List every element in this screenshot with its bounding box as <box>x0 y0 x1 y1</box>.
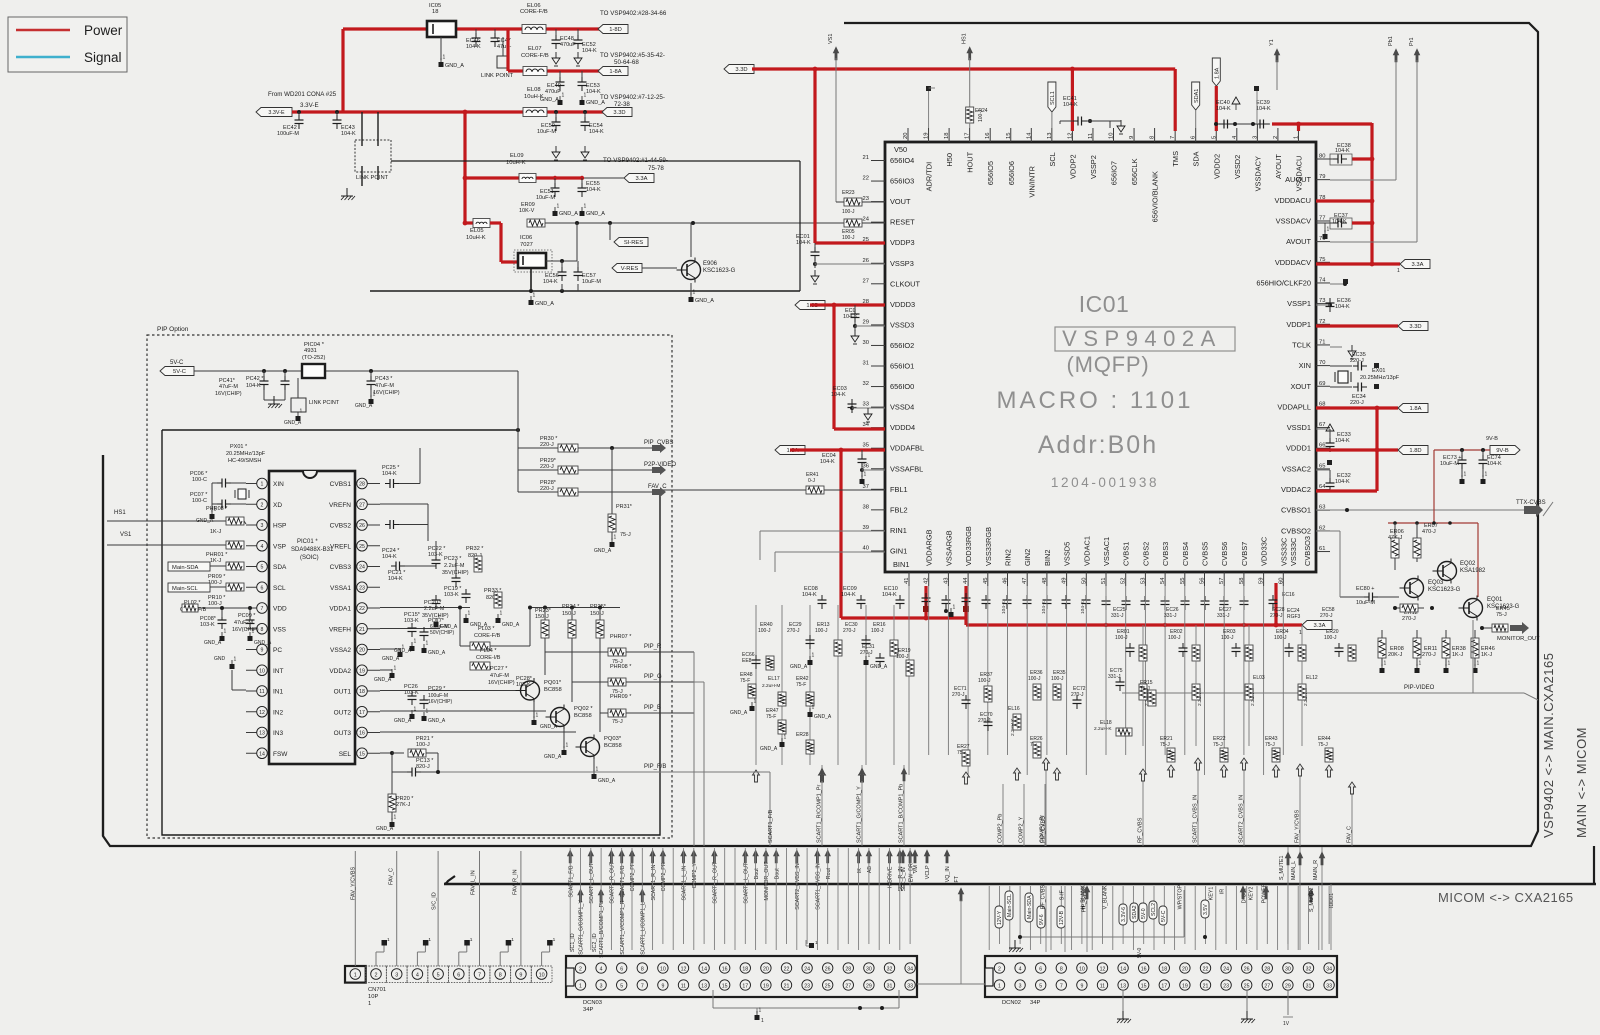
svg-text:100-J: 100-J <box>1221 635 1234 641</box>
svg-text:Bout: Bout <box>774 868 780 879</box>
power trace right trunk x1372 <box>1370 123 1373 264</box>
IC01 pin 24 RESET <box>871 221 885 223</box>
svg-text:1: 1 <box>368 1001 371 1007</box>
svg-text:1: 1 <box>557 204 560 210</box>
svg-text:PL03 *: PL03 * <box>478 626 495 632</box>
wire IFT to DCN02 <box>960 900 962 984</box>
svg-text:SDA1: SDA1 <box>1194 89 1200 103</box>
svg-text:104-K: 104-K <box>246 383 261 389</box>
svg-text:Power: Power <box>84 23 123 38</box>
svg-text:IR: IR <box>1220 889 1226 894</box>
svg-text:VSSP3: VSSP3 <box>890 259 914 268</box>
wire CVBSO1 <box>1316 509 1524 511</box>
svg-text:104-K: 104-K <box>589 129 604 135</box>
svg-text:PC29 *: PC29 * <box>428 686 446 692</box>
DCN03 pin 5 <box>617 980 627 990</box>
svg-text:5: 5 <box>1039 984 1042 990</box>
svg-text:20.25MHz/13pF: 20.25MHz/13pF <box>226 451 266 457</box>
power trace pin59 riser <box>1274 583 1277 625</box>
svg-text:PR25*: PR25* <box>590 604 607 610</box>
power trace left bottom trunk x841 <box>839 450 842 618</box>
svg-text:270-J: 270-J <box>1402 616 1416 622</box>
DCN03 pin 4 <box>596 963 606 973</box>
power trace EL05 rail <box>465 221 473 224</box>
svg-text:1: 1 <box>234 657 237 663</box>
wire OUT2 to PQ02 <box>380 710 546 712</box>
svg-text:104-K: 104-K <box>1335 304 1350 310</box>
svg-text:1: 1 <box>562 93 565 99</box>
warning triangle EC40 <box>1232 97 1240 104</box>
svg-text:36: 36 <box>863 463 869 469</box>
svg-text:VS1: VS1 <box>120 532 132 538</box>
IC01 pin 37 FBL1 <box>871 488 885 490</box>
svg-text:22: 22 <box>784 967 790 973</box>
svg-text:2.2uH-K: 2.2uH-K <box>1094 726 1112 732</box>
warning triangle VSSD1 <box>1326 424 1334 431</box>
IC01 pin 40 GIN1 <box>871 550 885 552</box>
PIC01 pin 3 HSP <box>257 520 268 531</box>
svg-text:VREFH: VREFH <box>329 626 351 633</box>
chassis ground DCN02 top <box>1014 940 1016 948</box>
svg-text:24: 24 <box>359 565 365 571</box>
svg-text:19: 19 <box>924 133 930 139</box>
DCN03 pin 18 <box>740 963 750 973</box>
arrow Pb1 <box>1393 49 1399 62</box>
svg-text:GND_A: GND_A <box>730 710 748 716</box>
svg-text:5: 5 <box>261 565 264 571</box>
svg-text:104-K: 104-K <box>1335 479 1350 485</box>
svg-text:1: 1 <box>252 629 255 635</box>
svg-text:34P: 34P <box>1030 1000 1040 1006</box>
svg-text:33: 33 <box>1326 984 1332 990</box>
svg-text:19: 19 <box>359 668 365 674</box>
svg-text:CVBS5: CVBS5 <box>1201 542 1210 566</box>
svg-text:104-K: 104-K <box>382 554 397 560</box>
svg-text:COMP2_PR: COMP2_PR <box>661 862 667 891</box>
PIC01 pin 5 SDA <box>257 561 268 572</box>
power trace VDDAFBL rail <box>790 448 885 451</box>
svg-text:4: 4 <box>600 967 603 973</box>
svg-text:PQ02 *: PQ02 * <box>574 706 593 712</box>
IC01 pin 77 VSSDACV <box>1316 220 1330 222</box>
DCN03 pin 23 <box>802 980 812 990</box>
IC01 pin 41 bottom <box>908 572 910 586</box>
svg-text:104-K: 104-K <box>820 459 835 465</box>
svg-text:1: 1 <box>1419 661 1422 667</box>
transistor EQ01 <box>1464 599 1483 618</box>
svg-text:CVBS1: CVBS1 <box>1122 542 1131 566</box>
svg-text:VSP9402A: VSP9402A <box>1062 326 1222 351</box>
signal label SCART1_F/B <box>619 850 625 863</box>
svg-text:SEL_L_IN: SEL_L_IN <box>901 867 907 891</box>
svg-text:20: 20 <box>1182 967 1188 973</box>
svg-text:10: 10 <box>539 973 545 979</box>
IC01 pin 44 VDD33RGB <box>967 572 969 586</box>
svg-text:MONITOR_OUT: MONITOR_OUT <box>1497 636 1540 642</box>
svg-text:53: 53 <box>1140 578 1146 584</box>
DCN02 pin 29 <box>1283 980 1293 990</box>
svg-text:VDDAPLL: VDDAPLL <box>1277 402 1311 411</box>
power trace VDDDACV-3.3A <box>1316 262 1400 265</box>
DCN02 pin 3 <box>1015 980 1025 990</box>
svg-text:VDDP2: VDDP2 <box>1068 154 1077 179</box>
flag 9V-6 <box>1037 906 1045 928</box>
IC01 pin 64 VDDAC2 <box>1316 489 1330 491</box>
svg-text:OUT1: OUT1 <box>334 689 352 696</box>
svg-text:GND_A: GND_A <box>870 664 888 670</box>
wire VS1 to VOUT <box>835 58 837 202</box>
svg-text:GND_A: GND_A <box>598 778 616 784</box>
svg-text:SCL: SCL <box>1048 152 1057 166</box>
svg-text:1: 1 <box>614 535 617 541</box>
svg-text:10K-V: 10K-V <box>519 208 535 214</box>
net flag V-RES <box>612 264 642 273</box>
svg-text:100-J: 100-J <box>208 601 222 607</box>
svg-text:2.2uF-M: 2.2uF-M <box>424 606 445 612</box>
net flag 3.3A top <box>624 174 654 183</box>
IC01 pin 28 VDDD3 <box>871 303 885 305</box>
DCN03 pin 7 <box>637 980 647 990</box>
svg-text:PC42 *: PC42 * <box>246 376 264 382</box>
svg-text:FBL1: FBL1 <box>890 485 908 494</box>
svg-text:331-J: 331-J <box>1164 613 1177 619</box>
svg-text:VSSDACY: VSSDACY <box>1253 156 1262 191</box>
svg-text:29: 29 <box>866 984 872 990</box>
svg-text:8: 8 <box>499 973 502 979</box>
svg-text:10: 10 <box>259 668 265 674</box>
DCN03 pin 9 <box>658 980 668 990</box>
svg-text:FAV_R_IN: FAV_R_IN <box>513 869 519 895</box>
svg-text:IN3: IN3 <box>273 730 284 737</box>
IC01 pin 34 VDDD4 <box>871 427 885 429</box>
svg-text:VSSAC1: VSSAC1 <box>1102 537 1111 566</box>
svg-text:1: 1 <box>373 392 376 398</box>
svg-text:XIN: XIN <box>1299 361 1311 370</box>
inductor EL06 <box>522 25 546 34</box>
svg-text:23: 23 <box>1223 984 1229 990</box>
svg-text:1.8D: 1.8D <box>1409 448 1421 454</box>
svg-text:1: 1 <box>579 984 582 990</box>
svg-text:656IO3: 656IO3 <box>890 177 914 186</box>
flag 12V-Y <box>995 906 1003 928</box>
svg-text:79: 79 <box>1319 174 1325 180</box>
net flag 1.8A left <box>775 446 805 455</box>
DCN02 pin 34 <box>1324 963 1334 973</box>
svg-text:PL04 *: PL04 * <box>480 648 497 654</box>
capacitor EC48 470uF <box>555 29 557 38</box>
power trace under-IC horizontal y618 <box>841 616 966 619</box>
svg-text:820-J: 820-J <box>416 764 430 770</box>
IC01 pin 6 SDA <box>1195 128 1197 142</box>
IC01 pin 59 VDD33C <box>1263 572 1265 586</box>
svg-text:34P: 34P <box>583 1007 593 1013</box>
svg-text:FBL2: FBL2 <box>890 505 908 514</box>
svg-text:VOUT: VOUT <box>890 197 911 206</box>
svg-text:14: 14 <box>701 967 707 973</box>
svg-text:VSSDACU: VSSDACU <box>1294 156 1303 192</box>
svg-text:6: 6 <box>1039 967 1042 973</box>
svg-text:31: 31 <box>1306 984 1312 990</box>
svg-text:1: 1 <box>1464 472 1467 478</box>
svg-text:44: 44 <box>963 577 969 584</box>
IC01 pin 31 656IO1 <box>871 365 885 367</box>
ground PX01 <box>211 504 213 512</box>
svg-text:16V(CHIP): 16V(CHIP) <box>488 680 515 686</box>
svg-text:75-J: 75-J <box>612 719 623 725</box>
svg-text:PC27 *: PC27 * <box>490 666 508 672</box>
svg-text:IC06: IC06 <box>520 235 532 241</box>
svg-text:1: 1 <box>354 973 357 979</box>
svg-text:656IO2: 656IO2 <box>890 341 914 350</box>
IC01 pin 47 GIN2 <box>1026 572 1028 586</box>
svg-text:16V(CHIP): 16V(CHIP) <box>373 390 400 396</box>
wire GIN1 <box>775 551 885 553</box>
net flag 1.8A vertical <box>1212 58 1220 86</box>
svg-text:470-J: 470-J <box>1422 529 1436 535</box>
power trace 3.3A long rail y625 <box>966 623 1302 626</box>
svg-text:SCART1_B/COMP1_Pb: SCART1_B/COMP1_Pb <box>599 901 605 958</box>
svg-text:PR32 *: PR32 * <box>466 546 484 552</box>
svg-text:15: 15 <box>722 984 728 990</box>
svg-text:100-J: 100-J <box>1168 635 1181 641</box>
svg-text:SCART2_CVBS_IN: SCART2_CVBS_IN <box>1239 795 1245 843</box>
svg-text:20: 20 <box>359 648 365 654</box>
svg-text:270-J: 270-J <box>787 628 800 634</box>
svg-text:VM: VM <box>913 865 919 873</box>
svg-text:GND_A: GND_A <box>814 714 832 720</box>
ground arrow EC02 <box>854 326 856 331</box>
IC01 pin 1 VSSDACU <box>1297 128 1299 142</box>
power trace VDDD3 rail <box>810 303 885 306</box>
svg-text:CVBS6: CVBS6 <box>1220 542 1229 566</box>
svg-text:4: 4 <box>261 544 264 550</box>
svg-text:SCART1_G/COMP1_Y: SCART1_G/COMP1_Y <box>579 900 585 955</box>
svg-text:20K-J: 20K-J <box>1388 652 1403 658</box>
svg-text:29: 29 <box>1285 984 1291 990</box>
svg-text:75: 75 <box>1319 257 1325 263</box>
svg-text:XIN: XIN <box>273 481 284 488</box>
wire IC06 ground branch <box>530 268 532 291</box>
PIC01 pin 2 XD <box>257 499 268 510</box>
svg-text:MONITOR_OUT: MONITOR_OUT <box>764 861 770 901</box>
svg-text:GND_A: GND_A <box>376 826 394 832</box>
svg-text:EL05: EL05 <box>470 228 484 234</box>
svg-text:59: 59 <box>1259 578 1265 584</box>
IC01 pin 32 656IO0 <box>871 386 885 388</box>
svg-text:CVBS3: CVBS3 <box>330 564 352 571</box>
svg-text:5V-C: 5V-C <box>1161 910 1167 922</box>
ground hook under DCN03 <box>805 940 807 946</box>
svg-text:100-J: 100-J <box>815 628 828 634</box>
svg-text:HOUT: HOUT <box>966 151 975 172</box>
svg-text:73: 73 <box>1319 298 1325 304</box>
svg-text:27: 27 <box>1264 984 1270 990</box>
svg-text:5V-0: 5V-0 <box>1141 908 1147 919</box>
DCN03 pin 22 <box>781 963 791 973</box>
inductor EL05 <box>473 219 490 228</box>
svg-text:VSSP2: VSSP2 <box>1089 155 1098 179</box>
svg-text:12: 12 <box>259 710 265 716</box>
power trace 1-8A rail <box>508 69 523 72</box>
DCN02 pin 14 <box>1118 963 1128 973</box>
svg-text:FAV_Y/CVBS: FAV_Y/CVBS <box>351 866 357 900</box>
svg-text:75-F: 75-F <box>766 714 776 720</box>
net flag 1.8D right <box>1398 446 1428 455</box>
svg-text:HSP: HSP <box>273 523 286 530</box>
svg-text:PIP-VIDEO: PIP-VIDEO <box>1404 685 1435 691</box>
svg-text:VSSD4: VSSD4 <box>890 403 914 412</box>
signal label H-DRIVE <box>887 850 893 863</box>
ground arrows forest middle <box>963 772 970 784</box>
connector CN701 10P <box>345 966 366 983</box>
microcontroller PIC01 SDA9488X <box>269 471 355 764</box>
svg-text:BC858: BC858 <box>574 713 592 719</box>
transistor PQ01 <box>521 681 540 700</box>
svg-text:24: 24 <box>1223 967 1229 973</box>
svg-text:30: 30 <box>1285 967 1291 973</box>
svg-text:104-K: 104-K <box>831 392 846 398</box>
svg-text:SCART1_F/B: SCART1_F/B <box>568 865 574 897</box>
arrow Pr1 <box>1414 49 1420 62</box>
svg-text:75-F: 75-F <box>796 682 806 688</box>
svg-text:4: 4 <box>416 973 419 979</box>
PIC01 pin 14 FSW <box>257 748 268 759</box>
svg-text:3.3V-E: 3.3V-E <box>300 102 319 109</box>
IC01 pin 29 VSSD3 <box>871 324 885 326</box>
rotated labels COMP2 <box>1002 784 1004 846</box>
svg-text:GND: GND <box>214 656 226 662</box>
power trace TMS drop <box>1174 69 1177 131</box>
svg-text:GND_A: GND_A <box>540 724 558 730</box>
signal label SCART1_CVBS_IN <box>815 850 821 863</box>
svg-text:57: 57 <box>1219 578 1225 584</box>
svg-text:FAV_C: FAV_C <box>1347 826 1353 843</box>
svg-text:25: 25 <box>359 544 365 550</box>
DCN02 pin 19 <box>1180 980 1190 990</box>
rotated labels COMP outputs under left forest <box>821 765 823 846</box>
svg-text:2: 2 <box>998 967 1001 973</box>
capacitor EC56 <box>561 261 563 268</box>
svg-text:47uF-M: 47uF-M <box>490 673 509 679</box>
svg-text:VSSARGB: VSSARGB <box>944 530 953 566</box>
svg-text:1: 1 <box>566 743 569 749</box>
wire E906 collector <box>690 223 692 257</box>
svg-text:VDDDACU: VDDDACU <box>1274 196 1311 205</box>
svg-text:SCL2: SCL2 <box>1151 903 1157 916</box>
svg-text:PC09 *: PC09 * <box>238 613 256 619</box>
svg-text:PIP_B: PIP_B <box>644 705 661 711</box>
svg-text:50: 50 <box>1081 578 1087 584</box>
wire OUT1 to PQ01 <box>380 690 516 692</box>
wire link-point horizontal y161 <box>391 160 800 162</box>
flag 5V-0 <box>1139 903 1147 922</box>
svg-text:FAV_Y/CVBS: FAV_Y/CVBS <box>1295 809 1301 843</box>
svg-text:9: 9 <box>1129 136 1135 139</box>
svg-text:20.25MHz/13pF: 20.25MHz/13pF <box>1360 375 1400 381</box>
net flag SCL1 vertical <box>1048 82 1056 112</box>
svg-text:100-J: 100-J <box>1051 676 1064 682</box>
svg-text:GND_A: GND_A <box>374 677 392 683</box>
svg-text:21: 21 <box>359 627 365 633</box>
svg-text:VDDDACV: VDDDACV <box>1275 258 1311 267</box>
DCN02 pin 20 <box>1180 963 1190 973</box>
svg-text:70: 70 <box>1319 360 1325 366</box>
ground GND_A under E906 <box>690 283 692 295</box>
svg-text:32: 32 <box>1306 967 1312 973</box>
svg-text:TMS: TMS <box>1171 151 1180 167</box>
svg-text:100-C: 100-C <box>192 498 207 504</box>
capacitor row pins 46-50 <box>1006 595 1008 600</box>
svg-text:PHR09 *: PHR09 * <box>610 694 632 700</box>
flag Main-SDA <box>1025 893 1033 922</box>
svg-text:1: 1 <box>1293 136 1299 139</box>
svg-text:18: 18 <box>1161 967 1167 973</box>
svg-text:32: 32 <box>863 381 869 387</box>
svg-text:72: 72 <box>1319 319 1325 325</box>
IC01 pin 14 VIN/INTR <box>1030 128 1032 142</box>
svg-text:35V(CHIP): 35V(CHIP) <box>442 570 469 576</box>
PIC01 pin 7 VDD <box>257 603 268 614</box>
svg-text:33: 33 <box>907 984 913 990</box>
wire VS1 <box>107 544 226 546</box>
svg-text:1: 1 <box>426 641 429 647</box>
svg-text:17: 17 <box>359 710 365 716</box>
svg-text:656HIO/CLKF20: 656HIO/CLKF20 <box>1256 278 1311 287</box>
crystal PX01 symbol <box>238 489 246 499</box>
svg-text:331-J: 331-J <box>1217 613 1230 619</box>
power trace EC37 branch <box>1352 221 1372 224</box>
svg-text:1: 1 <box>754 699 757 705</box>
svg-text:WP/STOP: WP/STOP <box>1178 885 1184 910</box>
svg-text:270-J: 270-J <box>1270 613 1283 619</box>
DCN02 pin 6 <box>1036 963 1046 973</box>
svg-text:470uF: 470uF <box>545 89 561 95</box>
svg-text:KSC1623-G: KSC1623-G <box>703 268 736 274</box>
IC01 pin 39 RIN1 <box>871 529 885 531</box>
svg-text:40: 40 <box>863 545 869 551</box>
wire VREFN right <box>380 503 428 505</box>
svg-text:11: 11 <box>681 984 686 990</box>
net flag 1.8A right <box>1398 404 1428 413</box>
wire 5V-0 distribution <box>1020 936 1184 938</box>
signal label SCART1_L_OUT <box>588 850 594 863</box>
svg-text:42: 42 <box>924 578 930 584</box>
power trace VDDD2 drop <box>1215 86 1218 131</box>
svg-text:23: 23 <box>804 984 810 990</box>
wire EL09 to 3.3A flag <box>582 177 624 179</box>
svg-text:18: 18 <box>742 967 748 973</box>
capacitor EC42 <box>297 110 301 114</box>
svg-text:100-J: 100-J <box>416 742 430 748</box>
DCN03 pin 12 <box>678 963 688 973</box>
svg-text:25: 25 <box>825 984 831 990</box>
svg-text:220-J: 220-J <box>540 442 554 448</box>
svg-text:SCL: SCL <box>273 585 286 592</box>
svg-text:77: 77 <box>1319 215 1325 221</box>
svg-text:104-K: 104-K <box>1001 600 1007 614</box>
svg-text:69: 69 <box>1319 381 1325 387</box>
wire link-point vertical x800 <box>799 161 801 291</box>
left bus HS1 VS1 <box>102 455 104 836</box>
svg-text:25: 25 <box>1244 984 1250 990</box>
svg-text:64: 64 <box>1319 484 1326 490</box>
grounds PL02 area <box>220 636 225 641</box>
svg-text:GND_A: GND_A <box>382 656 400 662</box>
IC01 pin 46 RIN2 <box>1007 572 1009 586</box>
svg-text:VS1: VS1 <box>828 34 834 44</box>
svg-text:GND_A: GND_A <box>204 640 222 646</box>
svg-text:GIN1: GIN1 <box>890 546 907 555</box>
